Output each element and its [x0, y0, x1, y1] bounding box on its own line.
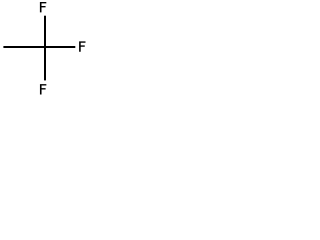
bond C-F right — [45, 46, 75, 48]
atom label F top — [40, 2, 46, 12]
atom label F right — [79, 41, 85, 51]
bond C-F bottom — [44, 47, 46, 80]
bond CH3-C (methyl to central carbon) — [3, 46, 45, 48]
atom label F bottom — [40, 84, 46, 94]
bond C-F top — [44, 16, 46, 47]
